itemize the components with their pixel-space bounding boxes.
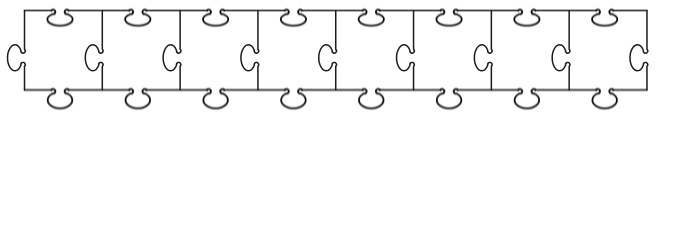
socket piece 3 [203,10,228,26]
tab piece 3 [203,89,228,108]
tab piece 2 [126,89,151,108]
tab piece 7 [515,89,540,108]
socket piece 7 [514,10,539,26]
vertical edge 1 with left tab [8,11,26,90]
vertical edge 7 with left tab [474,11,492,90]
vertical edge 3 with left tab [163,11,181,90]
tab piece 6 [437,89,462,108]
vertical edge 8 with left tab [552,11,570,90]
vertical edge 4 with left tab [241,11,259,90]
vertical edge 2 with left tab [85,11,103,90]
socket piece 5 [359,10,384,26]
jigsaw puzzle strip of 8 pieces [0,0,698,120]
tab piece 1 [48,89,73,108]
vertical edge 6 with left tab [397,11,415,90]
vertical edge 5 with left tab [319,11,337,90]
bottom edge line [25,89,647,91]
tab piece 4 [281,89,306,108]
top edge line [25,10,647,12]
socket piece 1 [47,10,72,26]
socket piece 2 [125,10,150,26]
tab piece 5 [359,89,384,108]
socket piece 8 [592,10,617,26]
vertical edge 9 with left tab [630,11,648,90]
socket piece 6 [436,10,461,26]
socket piece 4 [281,10,306,26]
tab piece 8 [592,89,617,108]
